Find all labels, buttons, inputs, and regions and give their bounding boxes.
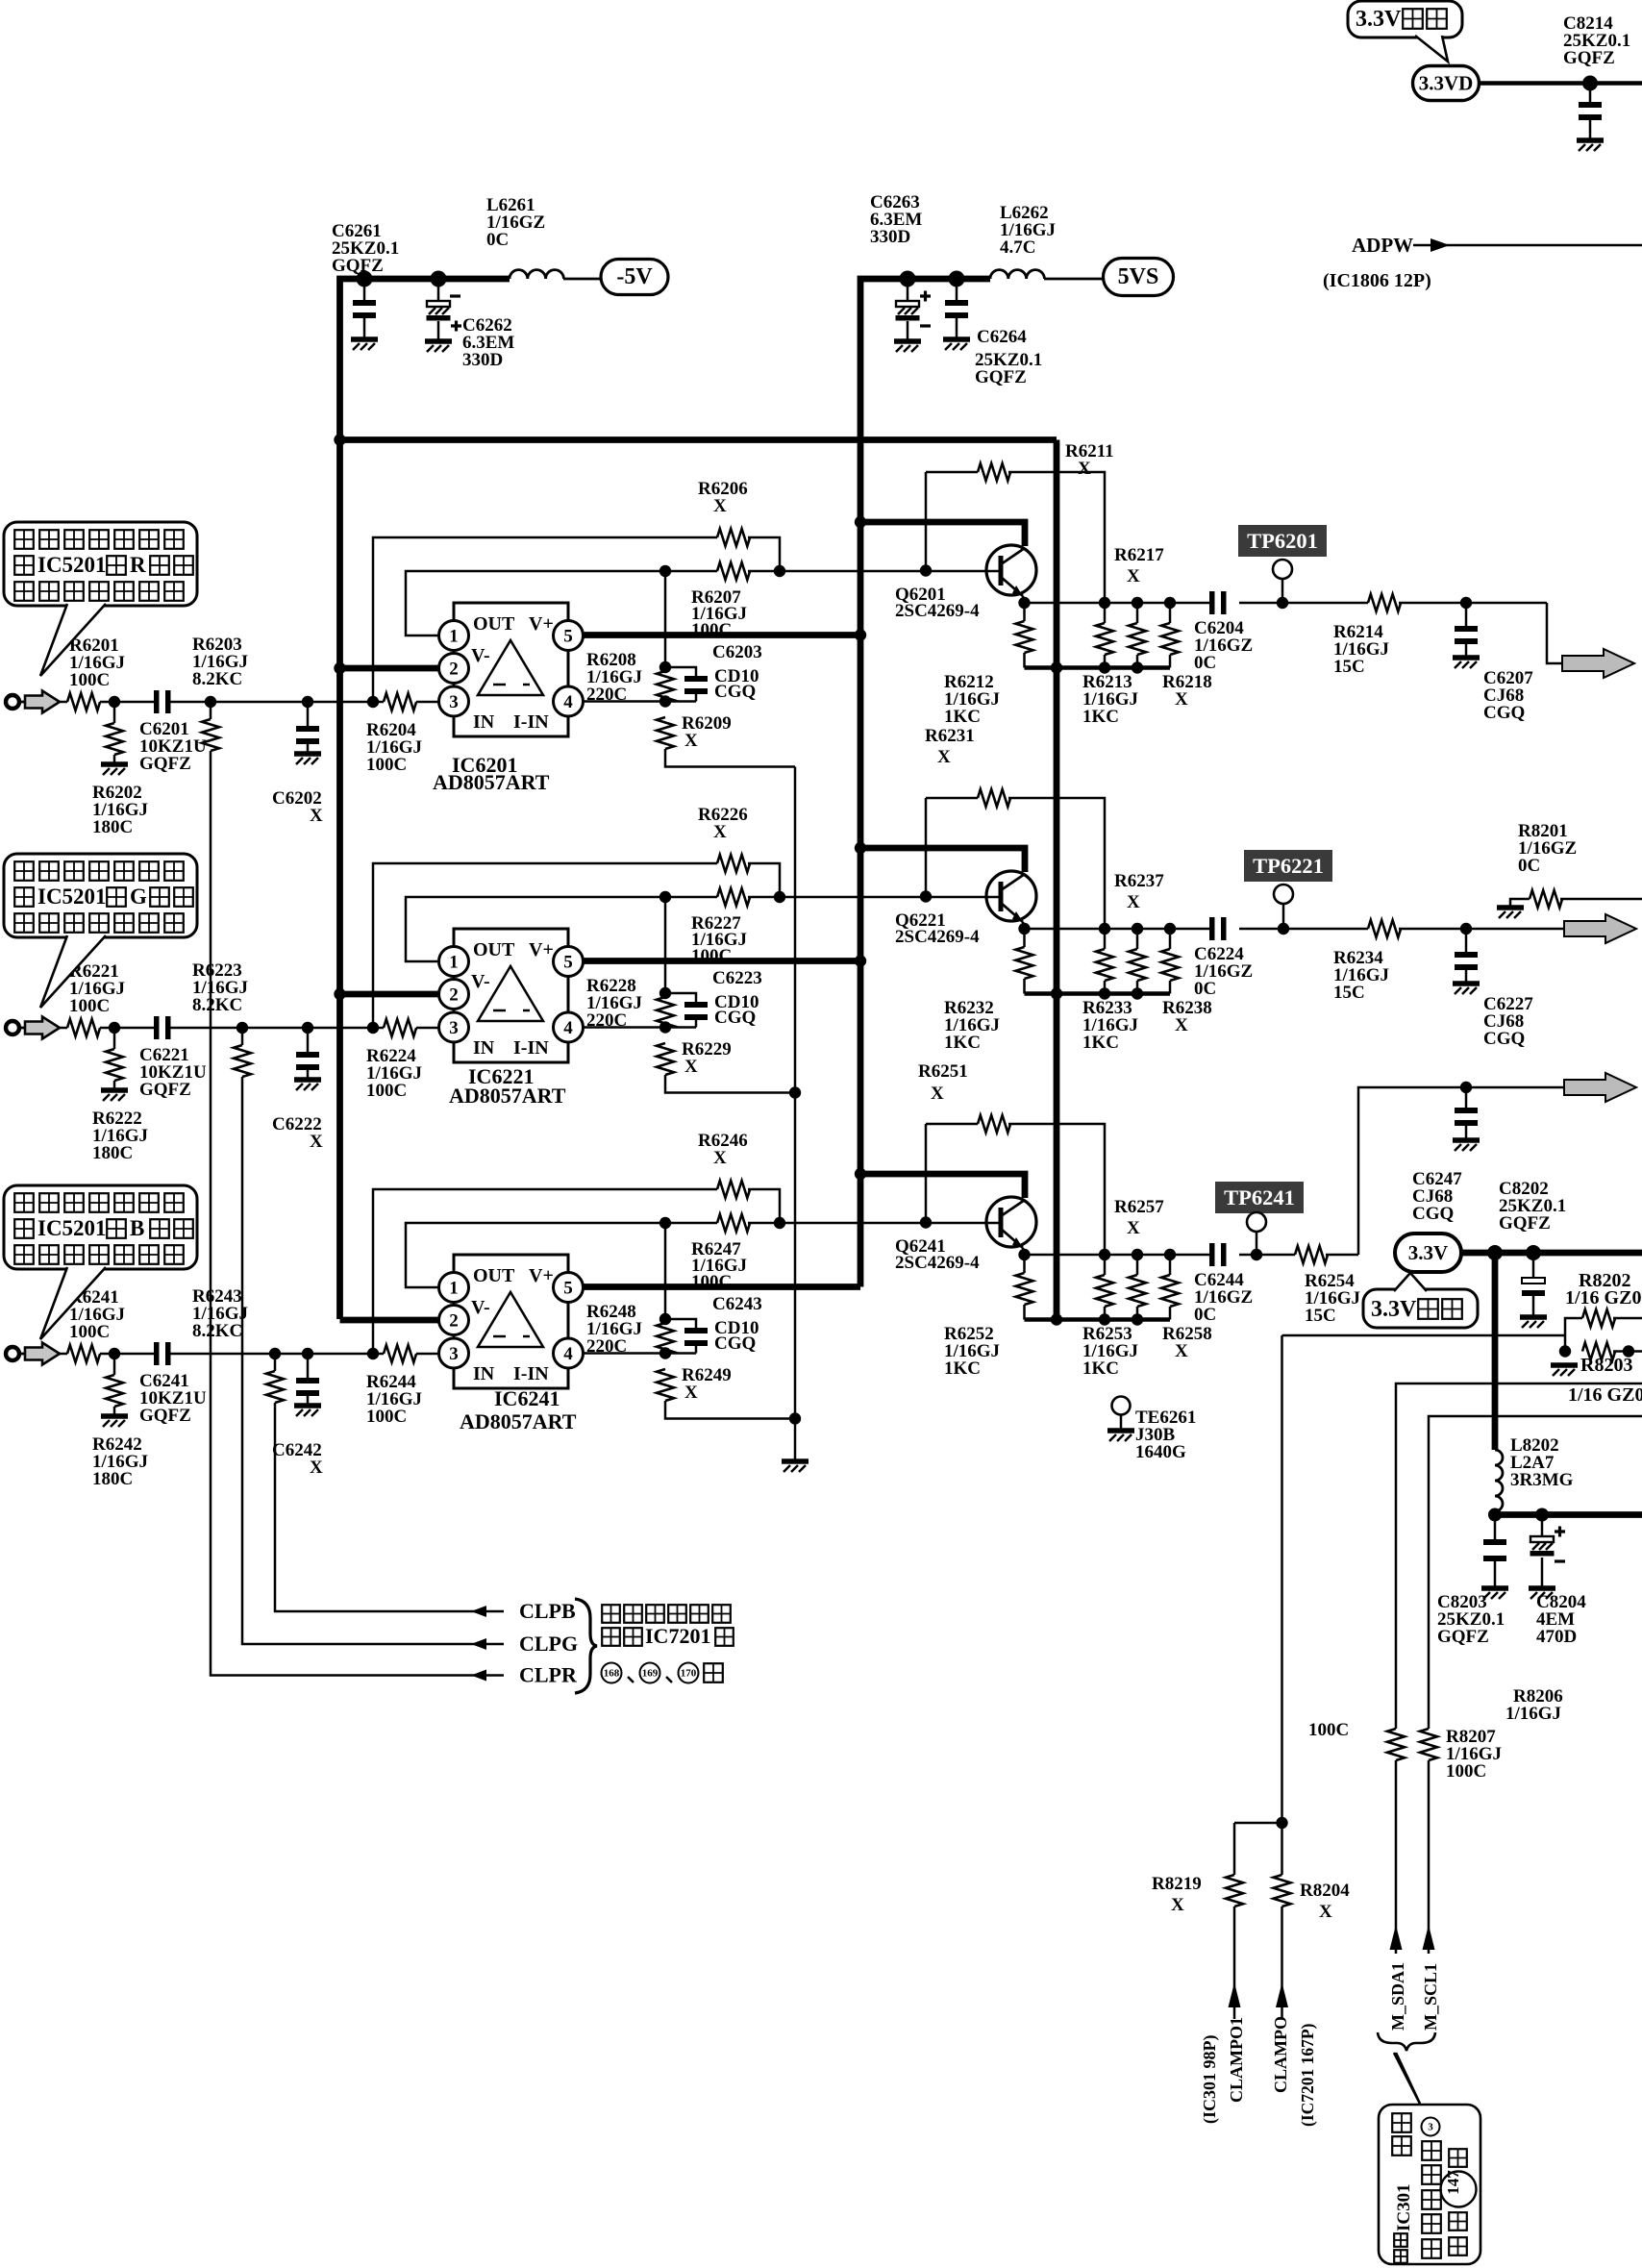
junction bbox=[367, 1348, 379, 1359]
transistor Q6241 2SC4269-4 bbox=[986, 1197, 1036, 1248]
wire R6211 right leg bbox=[1008, 472, 1105, 603]
junction bbox=[334, 434, 345, 445]
callout tail top bbox=[1415, 36, 1448, 62]
wire G line after cap bbox=[170, 1027, 308, 1030]
svg-text:1/16GJ: 1/16GJ bbox=[1505, 1704, 1561, 1724]
wire emitter resistor bar G bbox=[1025, 991, 1171, 996]
wire bbox=[113, 1354, 116, 1375]
wire bbox=[308, 701, 373, 704]
wire bbox=[113, 1407, 116, 1414]
wire bbox=[307, 702, 310, 726]
wire bbox=[1136, 1255, 1139, 1275]
junction bbox=[659, 695, 671, 707]
junction bbox=[659, 1313, 671, 1325]
wire collector feed G bbox=[860, 848, 1025, 872]
svg-text:3: 3 bbox=[1428, 2122, 1433, 2133]
svg-text:X: X bbox=[1175, 1341, 1188, 1361]
transistor Q6221 2SC4269-4 bbox=[986, 871, 1036, 922]
wire B line after cap bbox=[170, 1353, 308, 1356]
wire bbox=[100, 1027, 154, 1030]
resistor R8207 bbox=[1420, 1729, 1437, 1760]
svg-text:C6203: C6203 bbox=[712, 642, 762, 662]
junction 3.3V rail bbox=[1487, 1245, 1503, 1260]
resistor R6206 bbox=[717, 529, 750, 546]
resistor R6241 bbox=[67, 1345, 100, 1362]
wire feedback top B bbox=[373, 1189, 717, 1354]
junction bbox=[659, 565, 671, 577]
wire bbox=[437, 321, 440, 339]
chinese from video matrix line1 bbox=[602, 1605, 620, 1623]
svg-text:V+: V+ bbox=[529, 613, 554, 635]
wire ground chain vertical bbox=[794, 767, 797, 1460]
wire bbox=[1613, 1350, 1642, 1353]
wire bbox=[1023, 922, 1025, 929]
wire bbox=[748, 1189, 780, 1223]
junction bbox=[109, 1348, 120, 1359]
junction bbox=[367, 696, 379, 708]
svg-text:X: X bbox=[1319, 1902, 1332, 1922]
svg-text:CLAMPO: CLAMPO bbox=[1271, 2016, 1290, 2093]
wire bbox=[748, 863, 780, 897]
svg-text:X: X bbox=[1078, 459, 1091, 479]
wire bbox=[1494, 1511, 1497, 1515]
inductor L6261 bbox=[510, 270, 563, 279]
junction bbox=[774, 565, 785, 577]
wire bbox=[665, 570, 717, 573]
svg-text:X: X bbox=[310, 1132, 323, 1152]
wire R output jog bbox=[1547, 603, 1562, 663]
wire collector feed R bbox=[860, 522, 1025, 546]
wire bbox=[363, 279, 366, 300]
wire bbox=[307, 1396, 310, 1404]
resistor R6233 bbox=[1096, 949, 1113, 981]
wire bbox=[437, 279, 440, 301]
svg-text:V+: V+ bbox=[529, 939, 554, 960]
svg-text:X: X bbox=[931, 1084, 944, 1104]
callout box input note G bbox=[4, 854, 197, 937]
wire bbox=[308, 1353, 373, 1356]
wire bbox=[1428, 1760, 1431, 1954]
wire 3.3VD wire bbox=[1479, 81, 1642, 86]
input terminal input R signal bbox=[6, 695, 19, 709]
wire R6231 right leg bbox=[1008, 798, 1105, 929]
junction bbox=[1018, 923, 1030, 935]
svg-text:V+: V+ bbox=[529, 1265, 554, 1286]
wire bbox=[1104, 929, 1107, 949]
svg-text:R6231: R6231 bbox=[925, 726, 975, 746]
capacitor C6241 bbox=[154, 1342, 160, 1365]
wire pin4 wire R bbox=[583, 700, 696, 703]
polarized capacitor C6263 bbox=[896, 301, 919, 307]
op-amp IC6201 AD8057ART bbox=[439, 603, 584, 736]
callout tail B bbox=[40, 1267, 106, 1339]
wire bbox=[60, 701, 67, 704]
wire bbox=[113, 755, 116, 762]
wire bbox=[1136, 603, 1139, 623]
wire bbox=[1413, 244, 1642, 247]
wire M_SCL1 wire bbox=[1429, 1416, 1642, 1729]
output arrow R signal out bbox=[1562, 649, 1634, 678]
svg-text:3.3VD: 3.3VD bbox=[1419, 72, 1474, 95]
svg-text:OUT: OUT bbox=[473, 613, 515, 635]
wire out feedback R bbox=[406, 571, 665, 636]
wire bbox=[242, 1077, 504, 1644]
svg-text:2SC4269-4: 2SC4269-4 bbox=[895, 1253, 980, 1273]
wire bbox=[1399, 602, 1547, 605]
junction bbox=[1018, 1249, 1030, 1260]
transistor Q6201 2SC4269-4 bbox=[986, 545, 1036, 596]
svg-text:X: X bbox=[684, 1383, 698, 1403]
svg-text:AD8057ART: AD8057ART bbox=[433, 770, 550, 794]
wire L8202 out rail bbox=[1495, 1511, 1642, 1518]
chinese note G line3 bbox=[14, 913, 34, 933]
resistor R8206 bbox=[1387, 1729, 1405, 1760]
svg-text:168: 168 bbox=[604, 1668, 620, 1680]
wire bbox=[60, 1353, 67, 1356]
resistor R6223 bbox=[234, 1045, 251, 1077]
junction bbox=[1132, 1313, 1143, 1325]
wire bbox=[113, 1081, 116, 1088]
resistor R8201 bbox=[1530, 890, 1562, 908]
junction bbox=[1132, 923, 1143, 935]
svg-text:3: 3 bbox=[449, 1018, 459, 1038]
svg-text:R8219: R8219 bbox=[1152, 1874, 1202, 1894]
ground C6222 bbox=[294, 1077, 321, 1083]
svg-text:R6237: R6237 bbox=[1114, 871, 1164, 891]
junction bbox=[855, 1168, 866, 1180]
junction bbox=[334, 988, 345, 1000]
wire R6211 left leg bbox=[926, 471, 978, 474]
wire bbox=[1233, 1823, 1236, 1875]
wire base wire G bbox=[780, 896, 999, 899]
junction bbox=[855, 955, 866, 966]
svg-text:3.3V: 3.3V bbox=[1356, 7, 1402, 32]
svg-text:X: X bbox=[1127, 1218, 1140, 1238]
arrowhead CLAMPO bbox=[1276, 1982, 1288, 2007]
svg-text:(IC301 98P): (IC301 98P) bbox=[1200, 2035, 1220, 2125]
chinese note G line1 bbox=[14, 861, 34, 881]
wire bbox=[1023, 1248, 1025, 1255]
junction bbox=[1132, 987, 1143, 999]
resistor R6254 bbox=[1295, 1246, 1328, 1263]
input terminal input G signal bbox=[6, 1021, 19, 1034]
test point TP6241 bbox=[1215, 1182, 1304, 1213]
capacitor C6204 bbox=[1209, 591, 1215, 614]
wire bbox=[665, 896, 717, 899]
svg-text:AD8057ART: AD8057ART bbox=[449, 1084, 566, 1108]
junction bbox=[1278, 923, 1289, 935]
svg-text:169: 169 bbox=[642, 1668, 659, 1680]
wire emitter resistor bar R bbox=[1025, 665, 1171, 670]
wire bbox=[1613, 1317, 1642, 1320]
junction bbox=[920, 1216, 932, 1228]
svg-text:B: B bbox=[130, 1216, 144, 1240]
svg-text:TP6221: TP6221 bbox=[1253, 854, 1324, 878]
wire emitter line G bbox=[1025, 928, 1210, 931]
wire emitter line R bbox=[1025, 602, 1210, 605]
chinese note G line2 bbox=[14, 887, 34, 907]
wire bbox=[100, 1353, 154, 1356]
ground C6202 bbox=[294, 751, 321, 757]
junction C6262 bbox=[431, 271, 447, 287]
svg-text:TP6201: TP6201 bbox=[1247, 529, 1318, 553]
svg-text:R62031/16GJ8.2KC: R62031/16GJ8.2KC bbox=[192, 635, 248, 689]
svg-text:170: 170 bbox=[681, 1668, 697, 1680]
wire bbox=[1465, 970, 1468, 982]
svg-text:C6223: C6223 bbox=[712, 968, 762, 988]
junction bbox=[205, 696, 216, 708]
svg-text:R6217: R6217 bbox=[1114, 545, 1164, 565]
ground C8214 bbox=[1577, 137, 1604, 143]
wire bbox=[307, 1028, 310, 1052]
wire V- pin2 B bbox=[340, 1317, 440, 1324]
wire bbox=[1399, 928, 1564, 931]
junction bbox=[659, 1217, 671, 1229]
wire bbox=[275, 1403, 504, 1611]
chinese note column2: kong zhi bu fen de (3) bbox=[1422, 2141, 1441, 2160]
wire R8219 branch bbox=[1234, 1822, 1282, 1825]
junction bbox=[1164, 1249, 1176, 1260]
wire 3.3V rail bbox=[1461, 1250, 1642, 1257]
svg-text:X: X bbox=[1127, 566, 1140, 586]
capacitor C6264 bbox=[945, 300, 968, 306]
wire bbox=[1169, 655, 1172, 668]
junction bbox=[1164, 597, 1176, 609]
wire base wire R bbox=[780, 570, 999, 573]
junction bbox=[1099, 661, 1110, 673]
svg-text:X: X bbox=[713, 822, 727, 842]
wire bbox=[956, 318, 958, 337]
ground C8203 bbox=[1481, 1585, 1508, 1591]
resistor R6214 bbox=[1368, 594, 1401, 611]
junction bbox=[659, 891, 671, 903]
resistor R6243 bbox=[266, 1371, 284, 1403]
resistor R6258 bbox=[1161, 1275, 1179, 1307]
junction bbox=[789, 1412, 801, 1424]
test point TP6221 bbox=[1244, 850, 1332, 882]
junction bbox=[855, 516, 866, 528]
wire bbox=[100, 701, 154, 704]
resistor R6209 bbox=[657, 717, 674, 749]
wire bbox=[1169, 929, 1172, 949]
callout box note from IC301 bbox=[1379, 2105, 1480, 2264]
resistor R8203 bbox=[1582, 1343, 1615, 1360]
wire bbox=[1104, 603, 1107, 623]
resistor R6248 bbox=[657, 1323, 674, 1355]
inductor L6262 bbox=[990, 270, 1044, 279]
svg-text:V-: V- bbox=[471, 1297, 490, 1318]
wire R6251 left leg bbox=[926, 1123, 978, 1126]
wire bbox=[1169, 603, 1172, 623]
wire bbox=[665, 667, 696, 676]
svg-text:147: 147 bbox=[1444, 2170, 1462, 2195]
wire R line after cap bbox=[170, 701, 308, 704]
resistor R6237 bbox=[1129, 949, 1146, 981]
wire bbox=[1023, 653, 1026, 668]
junction bbox=[1099, 1313, 1110, 1325]
ground TE6261 bbox=[1107, 1428, 1134, 1433]
wire bbox=[1023, 929, 1026, 947]
wire CLAMPO vertical bbox=[1281, 1335, 1283, 1875]
wire bbox=[907, 279, 909, 301]
svg-text:R8203: R8203 bbox=[1580, 1355, 1632, 1376]
junction bbox=[334, 662, 345, 674]
junction bbox=[1051, 661, 1062, 673]
junction bbox=[659, 987, 671, 999]
junction bbox=[302, 1022, 313, 1034]
callout box 3.3V supply note bottom bbox=[1363, 1289, 1478, 1328]
wire bbox=[1510, 899, 1530, 906]
svg-text:X: X bbox=[310, 806, 323, 826]
wire fb node down G bbox=[664, 897, 667, 993]
svg-text:X: X bbox=[1171, 1895, 1184, 1915]
junction bbox=[1051, 1313, 1062, 1325]
resistor R6218 bbox=[1161, 623, 1179, 655]
resistor R6249 bbox=[657, 1369, 674, 1401]
resistor R6201 bbox=[67, 693, 100, 710]
resistor R6229 bbox=[657, 1043, 674, 1075]
wire R6249 to ground line bbox=[665, 1401, 795, 1419]
junction bbox=[920, 564, 932, 576]
wire B output riser bbox=[1358, 1087, 1564, 1255]
svg-text:CLAMPO1: CLAMPO1 bbox=[1227, 2017, 1246, 2103]
ground C6247 bbox=[1453, 1137, 1480, 1143]
svg-text:X: X bbox=[713, 1148, 727, 1168]
svg-text:I-IN: I-IN bbox=[513, 1037, 549, 1059]
wire M_SDA1 wire bbox=[1396, 1383, 1642, 1729]
wire bbox=[1120, 1414, 1123, 1429]
svg-text:CD10CGQ: CD10CGQ bbox=[714, 1318, 759, 1354]
resistor R6208 bbox=[657, 671, 674, 703]
junction bbox=[109, 1022, 120, 1034]
wire bbox=[1104, 1307, 1107, 1320]
power node 3.3VD bbox=[1413, 66, 1480, 101]
wire bbox=[1326, 1254, 1358, 1257]
junction bbox=[1277, 597, 1288, 609]
input terminal input B signal bbox=[6, 1347, 19, 1360]
wire V+ pin5 B bbox=[583, 1284, 860, 1290]
svg-text:(IC7201 167P): (IC7201 167P) bbox=[1298, 2023, 1317, 2127]
wire out feedback B bbox=[406, 1223, 665, 1287]
svg-text:4: 4 bbox=[563, 1018, 573, 1038]
svg-text:2SC4269-4: 2SC4269-4 bbox=[895, 927, 980, 947]
capacitor C6242 bbox=[296, 1378, 319, 1383]
ground R6242 bbox=[101, 1413, 128, 1419]
ground C8204 bbox=[1529, 1585, 1555, 1591]
wire bbox=[1395, 1760, 1398, 1954]
resistor R6244 bbox=[384, 1345, 416, 1362]
wire R6231 left leg bbox=[926, 797, 978, 800]
junction bbox=[1276, 1817, 1287, 1829]
wire bbox=[925, 798, 928, 897]
svg-text:2: 2 bbox=[449, 660, 459, 680]
wire base wire B bbox=[780, 1222, 999, 1225]
wire bbox=[1281, 1907, 1283, 2019]
wire bbox=[363, 318, 366, 337]
wire -5V rail and bus bbox=[340, 279, 510, 1319]
junction bbox=[1251, 1249, 1262, 1260]
svg-text:IC5201: IC5201 bbox=[37, 1216, 107, 1240]
junction bbox=[1164, 923, 1176, 935]
junction bbox=[1051, 987, 1062, 999]
callout tail bottom 3.3V bbox=[1394, 1273, 1427, 1291]
chinese note R line2 bbox=[14, 556, 34, 575]
wire bbox=[1023, 979, 1026, 994]
resistor R6257 bbox=[1129, 1275, 1146, 1307]
wire B output line bbox=[1239, 1254, 1295, 1257]
wire bbox=[1023, 603, 1026, 621]
power node 3.3V bbox=[1395, 1234, 1461, 1272]
svg-text:M_SDA1: M_SDA1 bbox=[1388, 1962, 1407, 2031]
wire bbox=[695, 1346, 698, 1354]
resistor R6232 bbox=[1016, 947, 1033, 979]
chinese note B line1 bbox=[14, 1193, 34, 1212]
wire bbox=[665, 1319, 696, 1328]
resistor R6242 bbox=[106, 1375, 123, 1407]
junction bbox=[1623, 1345, 1634, 1357]
wire bbox=[1136, 1307, 1139, 1320]
chinese note B line2 bbox=[14, 1219, 34, 1238]
wire bbox=[1465, 644, 1468, 656]
wire bbox=[307, 1070, 310, 1078]
resistor R6238 bbox=[1161, 949, 1179, 981]
wire bbox=[211, 751, 504, 1676]
wire bbox=[1541, 1558, 1544, 1586]
wire bbox=[925, 472, 928, 571]
junction bbox=[1099, 923, 1110, 935]
svg-text:R62431/16GJ8.2KC: R62431/16GJ8.2KC bbox=[192, 1286, 248, 1341]
ground R6202 bbox=[101, 761, 128, 767]
junction bbox=[1132, 661, 1143, 673]
chinese note column3: jiao he (147) jiao bbox=[1449, 2149, 1467, 2167]
arrowhead CLAMPO1 bbox=[1229, 1982, 1241, 2007]
test terminal TE6261 bbox=[1112, 1397, 1131, 1415]
wire bbox=[1136, 655, 1139, 668]
svg-text:1: 1 bbox=[449, 627, 459, 647]
wire out feedback G bbox=[406, 897, 665, 961]
junction bbox=[1132, 1249, 1143, 1260]
resistor R8219 bbox=[1226, 1875, 1243, 1907]
resistor R8202 bbox=[1582, 1309, 1615, 1327]
output arrow G signal out bbox=[1564, 914, 1636, 943]
svg-text:X: X bbox=[684, 1057, 698, 1077]
resistor R6207 bbox=[717, 562, 750, 580]
svg-text:IN: IN bbox=[473, 1363, 495, 1384]
resistor R6231 bbox=[978, 789, 1010, 807]
resistor R6217 bbox=[1129, 623, 1146, 655]
wire bbox=[1023, 1255, 1026, 1273]
junction L8202 out bbox=[1488, 1508, 1502, 1522]
svg-text:X: X bbox=[684, 731, 698, 751]
wire bbox=[307, 744, 310, 752]
wire bbox=[416, 1027, 438, 1030]
wire bbox=[1494, 1515, 1497, 1540]
chinese line2 IC7201 bbox=[602, 1628, 620, 1646]
svg-text:CD10CGQ: CD10CGQ bbox=[714, 666, 759, 702]
wire bbox=[1532, 1296, 1535, 1315]
wire bbox=[113, 1028, 116, 1049]
svg-text:AD8057ART: AD8057ART bbox=[460, 1409, 577, 1433]
ground C6263 bbox=[894, 338, 921, 344]
ground R8203 node bbox=[1551, 1362, 1578, 1368]
resistor R6222 bbox=[106, 1049, 123, 1081]
junction bbox=[1099, 597, 1110, 609]
svg-text:1: 1 bbox=[449, 953, 459, 973]
svg-text:ADPW: ADPW bbox=[1352, 234, 1413, 257]
wire bbox=[1532, 1253, 1535, 1278]
svg-text:R: R bbox=[130, 553, 146, 577]
resistor R6251 bbox=[978, 1115, 1010, 1133]
